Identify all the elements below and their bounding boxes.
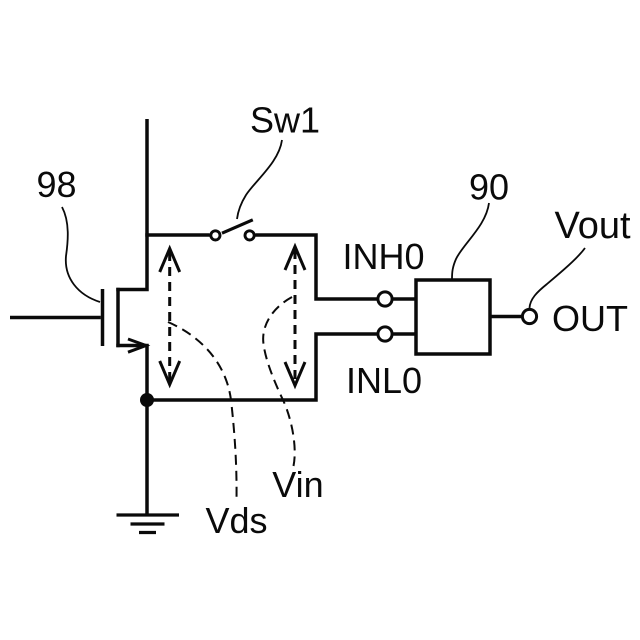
wire: INL0 lead, right bus down, bottom wire to source node — [147, 334, 377, 400]
wire: top wire from drain node to switch left contact — [145, 233, 209, 237]
svg-text:INH0: INH0 — [342, 236, 424, 277]
wire: box 90 output to OUT terminal — [490, 315, 522, 319]
svg-text:Vds: Vds — [205, 500, 267, 541]
leader curve from Vout to OUT terminal circle — [530, 248, 586, 308]
terminal circle OUT — [522, 309, 536, 323]
wire: switch right contact to right bus, down to INH0 lead — [255, 235, 377, 299]
svg-text:90: 90 — [469, 167, 509, 208]
transistor Q98 gate bar — [101, 289, 105, 346]
svg-text:Vin: Vin — [272, 464, 323, 505]
leader curve from 98 to gate bar — [62, 207, 100, 302]
block 90 box — [416, 280, 490, 354]
transistor Q98 gate lead wire — [10, 316, 101, 320]
dashed double arrow right (Vin span) — [285, 247, 305, 386]
ground lead wire — [145, 400, 149, 515]
svg-text:INL0: INL0 — [346, 360, 422, 401]
node A: junction dot at source/ground — [140, 393, 154, 407]
dashed leader curve from right arrow to label Vin — [263, 297, 295, 466]
transistor Q98 source arrowhead — [128, 339, 146, 352]
ground symbol — [117, 515, 180, 533]
svg-text:OUT: OUT — [552, 298, 628, 339]
dashed double arrow left (Vds span) — [160, 249, 180, 385]
leader curve from 90 to box top — [452, 203, 489, 279]
svg-text:Sw1: Sw1 — [250, 100, 320, 141]
dashed leader curve from left arrow to label Vds — [168, 322, 237, 501]
transistor Q98 channel bar — [116, 288, 120, 347]
switch Sw1 right contact circle — [245, 231, 254, 240]
wire: drain vertical line to transistor Q98 drain — [116, 119, 147, 290]
terminal circle INH0 — [378, 292, 392, 306]
wire: INH0 terminal circle to box 90 — [393, 297, 416, 301]
switch Sw1 lever — [222, 220, 253, 233]
transistor Q98 source lead with wire down to node — [116, 346, 147, 401]
svg-text:Vout: Vout — [554, 205, 631, 247]
terminal circle INL0 — [378, 327, 392, 341]
leader curve from Sw1 to switch lever — [237, 140, 282, 219]
wire: box 90 to INL0 terminal circle — [393, 332, 416, 336]
svg-text:98: 98 — [36, 164, 76, 205]
switch Sw1 left contact circle — [211, 231, 220, 240]
